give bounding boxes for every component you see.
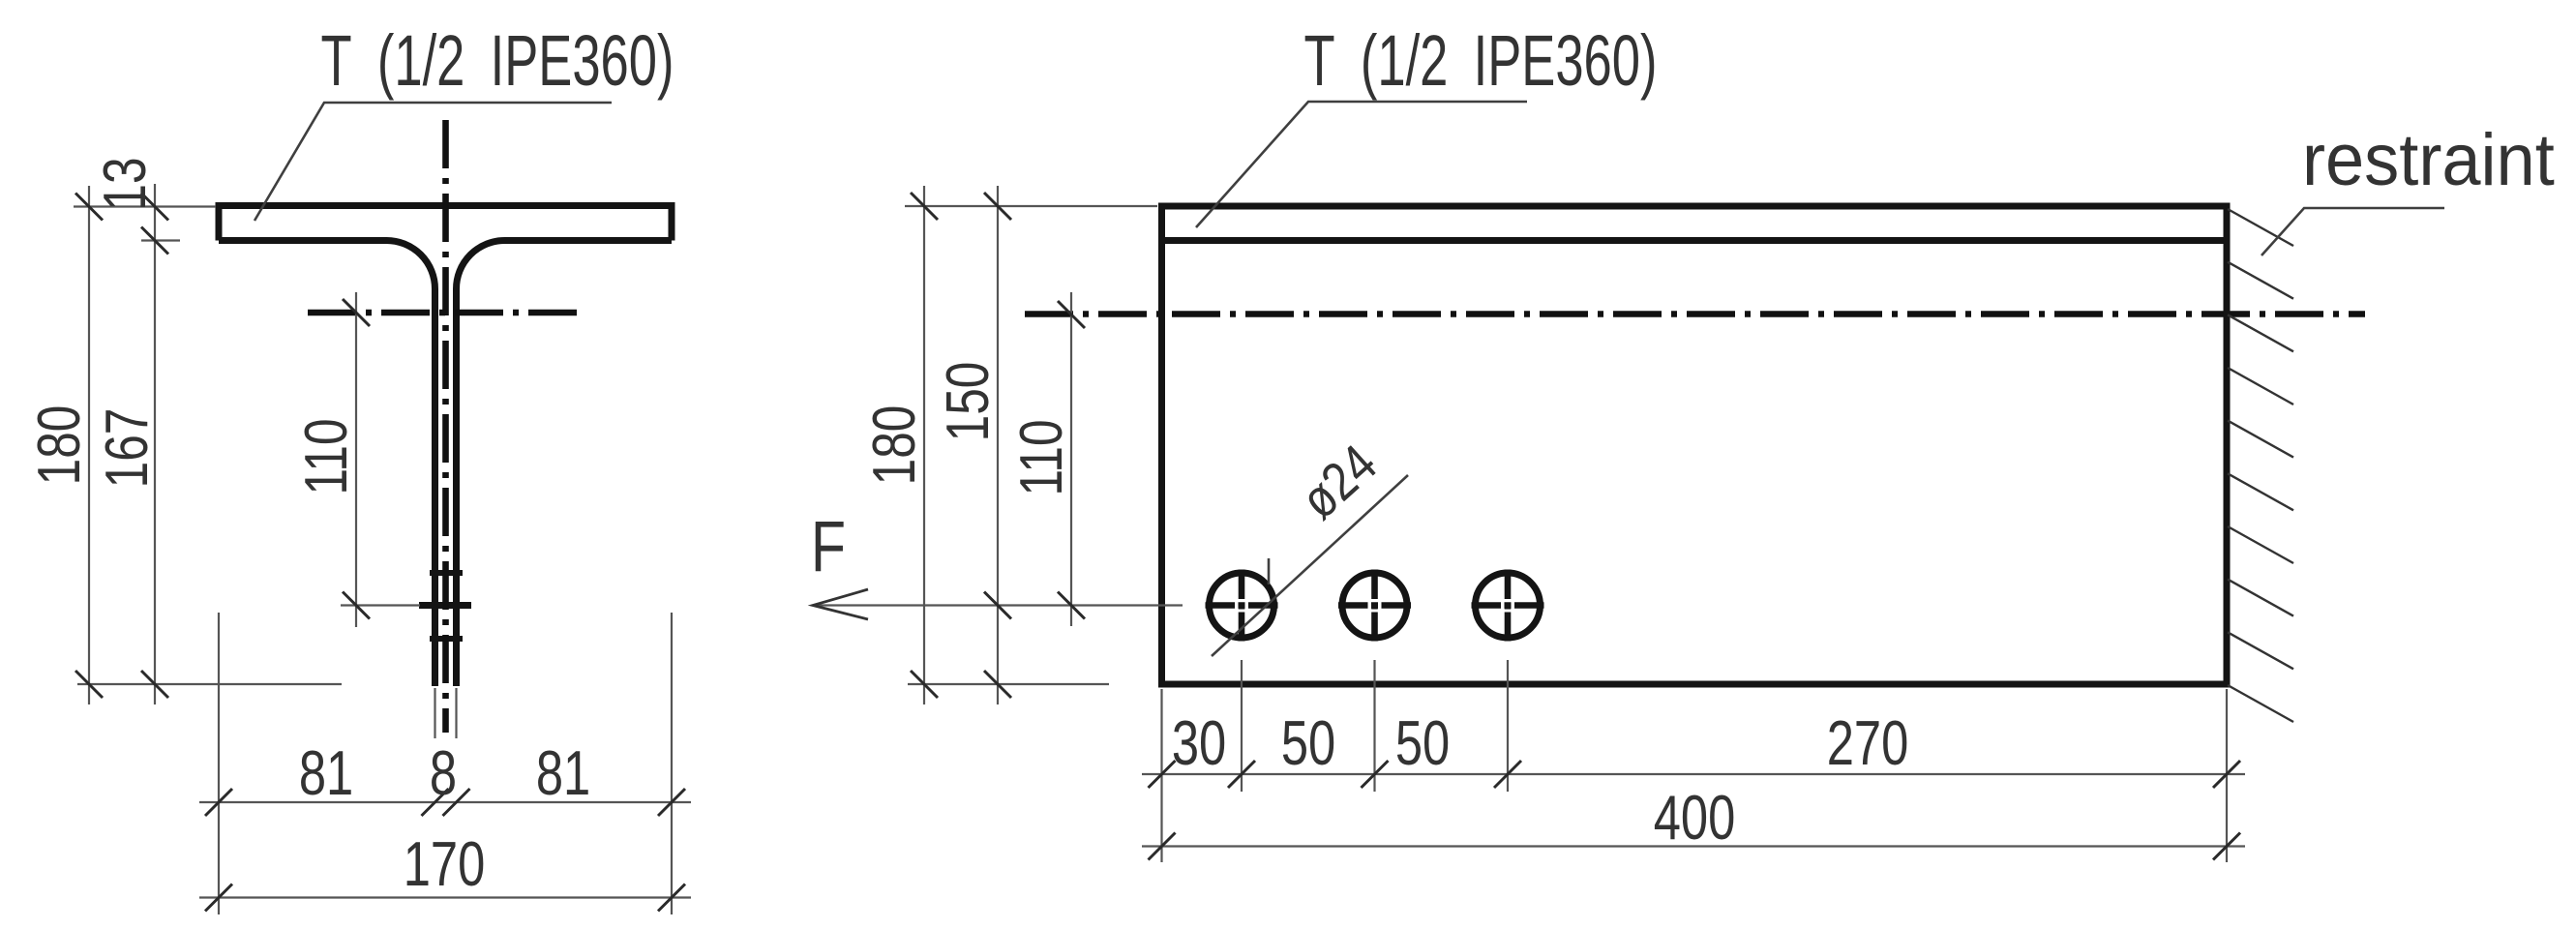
svg-text:8: 8 [430, 738, 457, 808]
svg-text:T (1/2 IPE360): T (1/2 IPE360) [321, 20, 674, 101]
svg-text:81: 81 [299, 738, 353, 808]
svg-text:T (1/2 IPE360): T (1/2 IPE360) [1304, 20, 1658, 101]
svg-text:ø24: ø24 [1289, 433, 1388, 530]
svg-text:50: 50 [1395, 708, 1450, 778]
svg-text:13: 13 [91, 157, 159, 210]
svg-text:400: 400 [1654, 783, 1736, 853]
svg-text:150: 150 [934, 362, 1002, 442]
svg-text:F: F [811, 507, 846, 587]
svg-text:180: 180 [25, 405, 93, 486]
svg-text:81: 81 [536, 738, 590, 808]
svg-text:110: 110 [1007, 419, 1075, 495]
svg-text:170: 170 [404, 829, 486, 899]
svg-text:50: 50 [1281, 708, 1335, 778]
svg-text:167: 167 [93, 408, 161, 489]
svg-text:restraint: restraint [2302, 118, 2555, 200]
svg-text:270: 270 [1827, 708, 1909, 778]
svg-text:30: 30 [1172, 708, 1226, 778]
svg-text:180: 180 [860, 405, 928, 486]
svg-text:110: 110 [292, 418, 360, 494]
